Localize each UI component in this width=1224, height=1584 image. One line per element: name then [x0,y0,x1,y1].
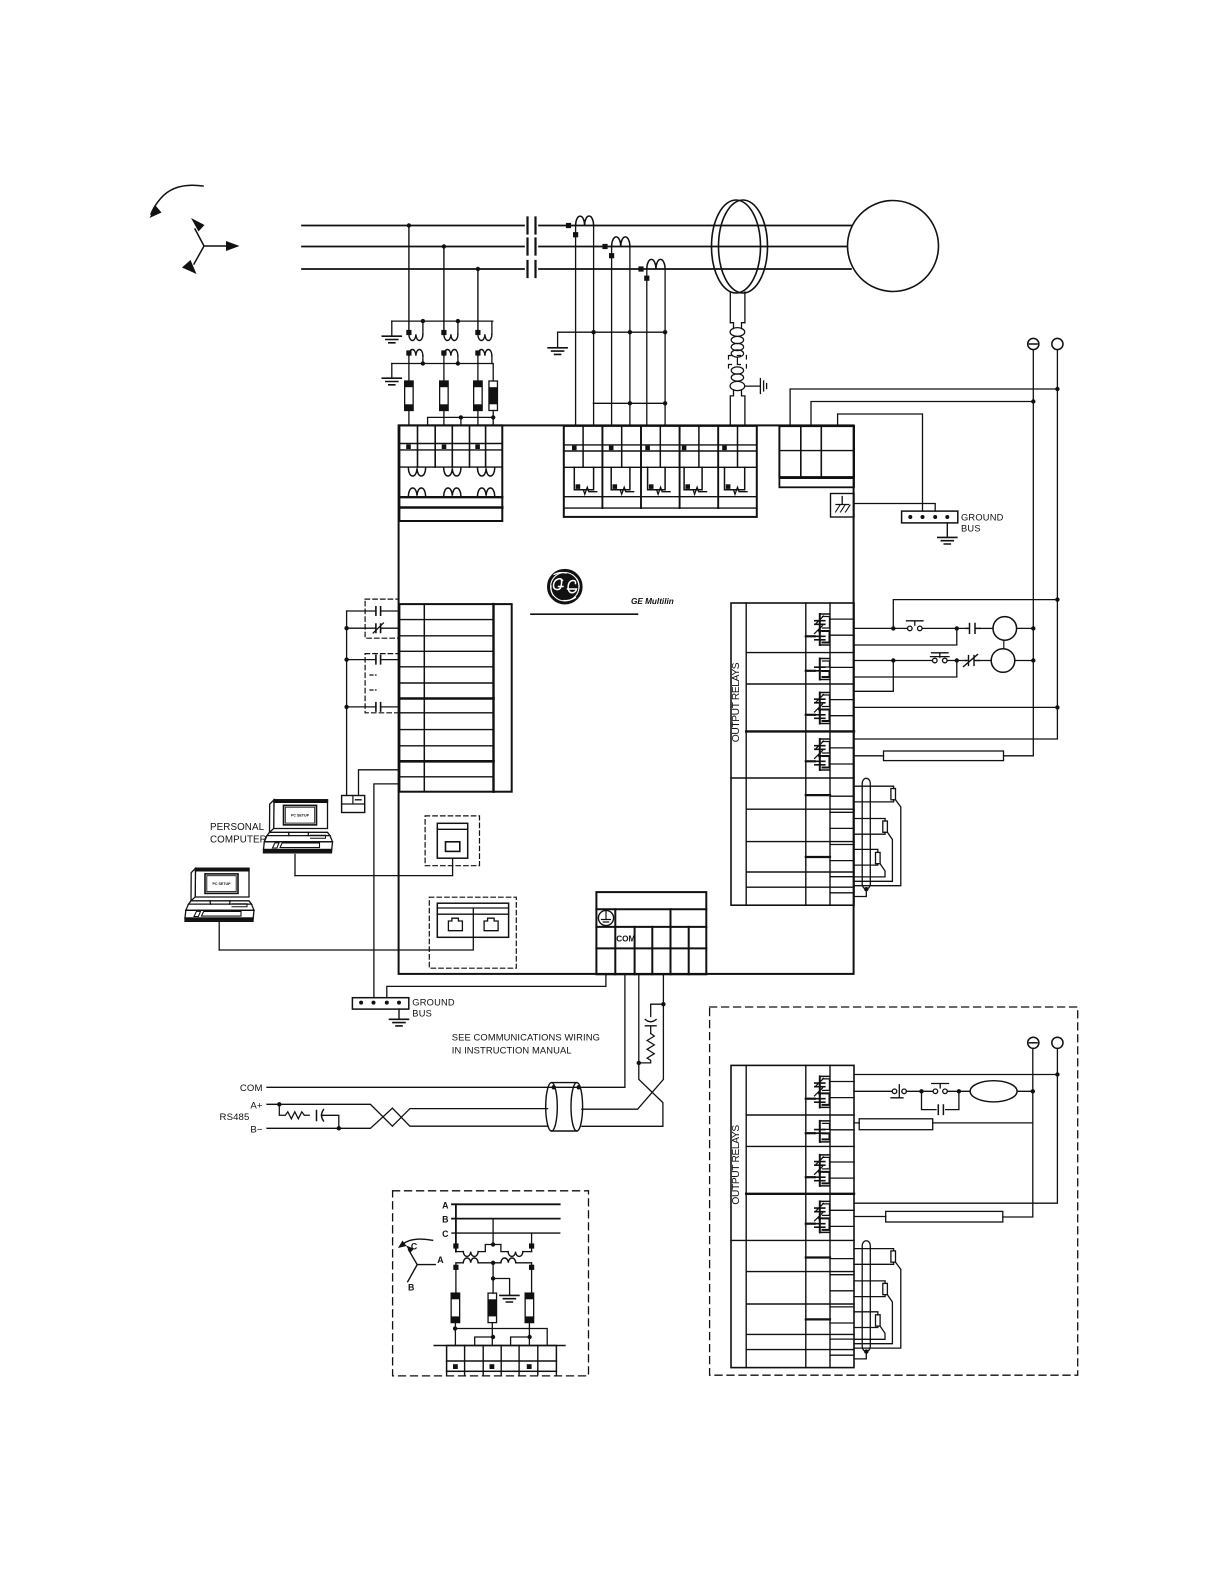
wire alarm contact row [854,706,1057,708]
wire CT B secondary leads [612,247,630,426]
personal computer laptop lower [185,868,254,921]
VT phase A primary winding [406,321,423,340]
ground symbol ground bus upper [946,523,948,537]
wire COM to cable shield [554,974,625,1087]
wire supply negative drop [1032,402,1034,756]
relay contact 1 trip [820,1076,830,1107]
relay contact 2 alarm [820,1121,830,1142]
ground CT secondary [548,348,567,355]
wire phase A alt [452,1203,560,1205]
RTD 2 [854,1281,885,1284]
wire CT C secondary leads [647,269,665,426]
svg-text:PC SETUP: PC SETUP [291,814,310,818]
resistor RS485 terminator [639,1034,655,1063]
wire COM shield to ground bus lower [387,974,606,997]
cable shield cylinder [546,1083,583,1131]
dashed box external contacts lower [365,654,399,713]
node phase C tap [476,267,480,271]
terminal block VT inputs [399,425,502,521]
dashed box program port [425,816,479,866]
wire VT primary neutral bus [392,320,493,322]
wire laptop upper to program port [294,855,296,876]
wire lamp 2 to supply [1015,660,1034,662]
pushbutton start alt [932,1084,949,1094]
wire relay ground terminal to ground bus [838,414,923,511]
VT phase C secondary winding [475,349,492,381]
personal computer laptop upper [264,800,333,853]
svg-text:IN INSTRUCTION MANUAL: IN INSTRUCTION MANUAL [452,1045,572,1056]
RTD 1 hot [854,786,894,788]
circuit breaker 52 phase A [528,218,536,234]
VT phase C primary winding [475,321,492,340]
wire supply negative drop alt [1003,1048,1033,1217]
dashed box alternate starter wiring [710,1007,1078,1375]
wire phase A bus [302,225,851,227]
resistor discharge 1 [854,1119,1033,1130]
RTD 1 hot [854,1249,894,1251]
svg-text:COMPUTER: COMPUTER [210,835,267,846]
svg-text:GROUND: GROUND [412,998,455,1008]
svg-text:C: C [411,1242,418,1252]
dashed box external contacts upper [365,599,399,638]
svg-text:C: C [442,1229,449,1239]
terminal block CT inputs [564,426,757,517]
wire output contact 2 row [854,660,932,662]
wire contact row 5 [854,661,893,692]
terminal block output relays main [731,603,854,905]
CT phase B [602,237,630,258]
VT open delta primary [453,1204,534,1256]
relay 269 case outline [399,425,854,974]
dashed box open delta VT wiring [393,1191,589,1376]
node phase B tap [442,244,446,248]
wire alt contact row 2 to contactor [854,1090,892,1092]
disconnect switch symbol [891,1085,906,1098]
wire supply L2 to relay [811,402,1033,427]
wire start circuit supply [893,600,1057,629]
terminal supply negative circle alt [1028,1037,1039,1048]
wire CT A secondary leads [576,226,594,426]
terminal supply positive circle alt [1052,1037,1063,1048]
ground bus terminal strip lower [352,998,408,1009]
fuse VT neutral [489,381,498,411]
wire B- conductor [267,1108,548,1128]
wire stop button to lamp 2 [947,660,965,662]
RTD shield loop [862,1241,870,1352]
svg-text:OUTPUT RELAYS: OUTPUT RELAYS [731,662,742,742]
resistor alarm [854,751,1032,761]
phase rotation arrow symbol [150,185,240,274]
svg-text:A: A [442,1200,449,1210]
logo GE [548,570,582,604]
wire ground CT shielded pair [729,292,747,426]
circuit breaker 52 phase B [528,239,536,255]
wire seal-in contact alt [922,1091,959,1114]
svg-text:PC SETUP: PC SETUP [213,882,232,886]
wire CT leads to relay [594,332,666,426]
wire fuses to relay terminals [409,411,493,426]
ground VT primary neutral [382,336,401,343]
svg-text:RS485: RS485 [220,1112,250,1123]
svg-text:B: B [408,1282,414,1292]
terminal supply negative circle [1028,338,1039,349]
wire contact row 4 [854,661,957,678]
relay contact 1 trip [820,614,830,645]
relay contact 3 aux [820,693,830,724]
wire seal-in contact row [854,628,957,645]
VT phase B secondary winding [441,349,458,381]
wire supply positive drop [854,389,1057,739]
wire fuses to terminal strip alt [453,1323,547,1346]
terminal block switch inputs [399,604,511,792]
ground symbol ground bus lower [398,1009,400,1019]
svg-text:COM: COM [616,935,635,944]
wire phase C bus [302,268,851,270]
svg-text:GE Multilin: GE Multilin [631,597,674,606]
wire lamp 1 to supply [1017,627,1034,629]
wire title underline [531,613,637,615]
svg-text:COM: COM [240,1083,263,1094]
wire RS485 B to relay [582,974,663,1126]
resistor RS485 source termination [279,1104,309,1119]
wire VT secondary ground tap [493,1279,510,1296]
pushbutton stop [931,653,950,663]
wire supply positive vertical [1056,350,1058,389]
RTD 3 [854,849,878,852]
wire connector to relay input [359,770,400,796]
pushbutton start [907,621,924,631]
wire RS485 A to relay [582,974,664,1109]
wire VT secondary neutral link [428,417,494,425]
VT phase A secondary winding [406,349,423,381]
lamp indicator 1 [993,617,1017,641]
wire supply negative vertical [1032,350,1034,402]
svg-text:OUTPUT RELAYS: OUTPUT RELAYS [731,1125,742,1205]
capacitor RS485 terminator [645,1004,663,1033]
circuit breaker 52 phase C [528,261,536,277]
svg-text:A: A [437,1255,444,1265]
fuse alt A [451,1293,460,1323]
wire case ground to ground bus [854,504,935,512]
terminal supply positive circle [1052,338,1063,349]
contact input 3 [347,659,400,661]
wire A+ conductor [267,1104,548,1126]
VT phase B primary winding [441,321,458,340]
svg-text:PERSONAL: PERSONAL [210,822,265,833]
svg-text:B−: B− [250,1124,262,1135]
fuse VT phase B [440,381,449,411]
wire phase C alt [452,1232,560,1234]
contact 52b symbol [964,655,980,667]
chassis ground symbol relay case [831,494,855,518]
ground open delta secondary [500,1295,519,1302]
phase rotation symbol alt [398,1239,444,1292]
connector RJ45 dual jack [437,903,508,937]
wire input common vertical [346,611,348,796]
wire RTD shield to relay [854,1352,866,1359]
wire COM conductor [267,1086,554,1088]
lamp indicator 2 [991,649,1015,673]
wire alt supply positive [854,1048,1057,1203]
wire phase B bus [302,246,848,248]
wire to start button alt [906,1090,932,1092]
svg-text:A+: A+ [250,1100,262,1111]
contact 52a symbol [967,624,981,634]
contact input 2 [347,627,400,629]
connector program port [437,823,467,858]
svg-text:SEE COMMUNICATIONS WIRING: SEE COMMUNICATIONS WIRING [452,1032,600,1043]
wire laptop lower to RJ45 [218,923,220,951]
ground VT secondary neutral [382,378,401,385]
terminal safety ground circle [598,910,613,925]
wire supply L1 to relay [790,389,1057,426]
CT phase A [566,216,594,237]
wire coil to supply negative alt [1017,1090,1033,1092]
contact input 1 [347,610,400,612]
relay contact 4 aux2 [820,739,830,770]
relay contact 4 aux2 [820,1201,830,1232]
wire CT secondary common bus 1 [558,331,666,333]
terminal block output relays alternate [731,1065,854,1367]
RTD shield loop [862,778,870,889]
wire phase B alt [452,1218,560,1220]
wire VT secondary neutral bus [392,364,493,382]
CT phase C [638,259,665,280]
wire RJ45 to PC [219,937,473,950]
terminal block communications [596,892,706,974]
RTD 2 [854,819,885,822]
wire output contact 1 to start button [854,627,908,629]
dashed box RS485 jacks [429,897,516,968]
svg-text:GROUND: GROUND [961,513,1004,523]
contactor coil M [970,1081,1017,1102]
fuse VT phase A [405,381,414,411]
fuse alt C [525,1293,534,1323]
fuse alt B inverse [488,1293,497,1323]
wire RTD shield to relay [854,889,866,896]
svg-text:BUS: BUS [961,524,981,534]
resistor discharge 2 [854,1211,1003,1222]
svg-text:B: B [442,1215,448,1225]
wire alt contact row 1 [854,1074,1057,1076]
wire program port to PC [295,858,453,875]
contact input 4 [347,706,400,708]
svg-text:BUS: BUS [412,1009,432,1019]
relay contact 3 aux [820,1155,830,1186]
ground CT 50:0.025 ring [712,200,768,293]
wire relay input to ground bus lower [374,784,400,998]
motor M [848,201,939,292]
wire continuation dash-dot marks [370,675,376,690]
connector block switch common [342,796,365,813]
relay contact 2 alarm [820,659,830,680]
terminal block control power [779,426,854,487]
VT open delta secondary [453,1258,534,1293]
ground shield drain [745,379,767,394]
node phase A tap [407,223,411,227]
wire start button to lamp 1 [922,627,966,629]
fuse VT phase C [474,381,483,411]
wire start button to coil [947,1090,970,1092]
terminal strip open delta VT [434,1346,565,1375]
RTD 3 [854,1312,878,1315]
ground bus terminal strip upper [902,511,958,523]
wire CT secondary bus 2 [593,402,665,404]
capacitor RS485 source termination [317,1110,339,1129]
